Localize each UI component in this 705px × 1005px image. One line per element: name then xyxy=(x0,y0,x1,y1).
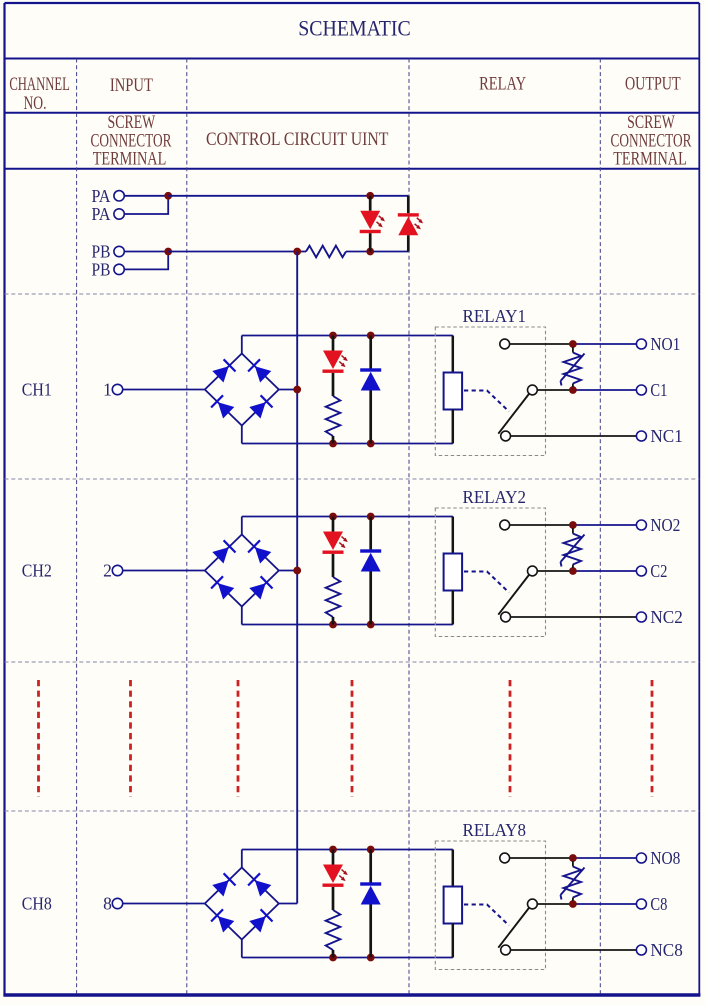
wire NO contact to node CH8 xyxy=(510,857,573,859)
svg-text:CONNECTOR: CONNECTOR xyxy=(611,132,692,152)
continuation dashed line 4 xyxy=(351,680,354,797)
bridge diode B2c xyxy=(211,576,234,599)
node snubber top CH8 xyxy=(569,854,577,862)
resistor R0 (input series) xyxy=(306,246,346,258)
continuation dashed line 3 xyxy=(237,680,240,797)
wire COM contact to node CH1 xyxy=(537,389,573,391)
node LED top CH2 xyxy=(329,513,337,521)
output terminal C8 xyxy=(636,894,667,914)
output terminal NC8 xyxy=(636,940,682,960)
relay actuator dashed link K1 xyxy=(464,391,509,412)
continuation dashed line 1 xyxy=(37,680,40,797)
svg-text:2: 2 xyxy=(103,561,112,581)
wire PA1 to junction xyxy=(124,195,168,197)
output terminal NC2 xyxy=(636,607,682,627)
relay coil K8 xyxy=(444,850,463,958)
relay RELAY1 box xyxy=(435,327,545,456)
relay coil K2 xyxy=(444,517,463,625)
wire bridge bottom stub CH1 xyxy=(241,426,243,444)
wire common bus (vertical) xyxy=(296,252,298,904)
relay actuator dashed link K2 xyxy=(464,572,509,593)
relay coil K1 xyxy=(444,336,463,444)
svg-text:CH2: CH2 xyxy=(22,561,52,581)
svg-text:CONTROL CIRCUIT UINT: CONTROL CIRCUIT UINT xyxy=(206,130,389,150)
wire bridge top stub CH1 xyxy=(241,336,243,354)
output terminal NO8 xyxy=(636,848,680,868)
relay contact NO CH8 xyxy=(500,853,510,863)
bridge diode B8d xyxy=(249,909,272,932)
node snubber bottom CH8 xyxy=(569,900,577,908)
relay armature CH2 xyxy=(498,575,529,615)
svg-text:NO2: NO2 xyxy=(650,515,680,535)
wire bridge to bus CH1 xyxy=(279,389,297,391)
continuation dashed line 6 xyxy=(651,680,654,797)
bridge diode B2b xyxy=(248,540,271,563)
wire resistor to rail CH2 xyxy=(332,617,335,625)
snubber RV1 (zigzag suppressor) xyxy=(561,347,585,387)
wire top rail CH8 xyxy=(242,849,453,851)
bridge diode B1c xyxy=(211,395,234,418)
wire node to C2 terminal xyxy=(573,570,637,572)
svg-text:PB: PB xyxy=(92,259,111,279)
flyback diode D1 (blue) xyxy=(360,336,381,444)
wire node to C1 terminal xyxy=(573,389,637,391)
wire PB rail to resistor xyxy=(168,251,306,253)
bridge diode B8b xyxy=(248,873,271,896)
relay actuator dashed link K8 xyxy=(464,905,509,926)
relay contact COM CH1 xyxy=(528,385,538,395)
output terminal NC1 xyxy=(636,426,682,446)
wire COM contact to node CH8 xyxy=(537,903,573,905)
terminal PA (upper) xyxy=(92,186,125,206)
wire NC contact to NC2 terminal xyxy=(511,616,637,618)
wire resistor to rail CH8 xyxy=(332,950,335,958)
node LED bottom CH2 xyxy=(329,621,337,629)
relay contact COM CH2 xyxy=(528,566,538,576)
resistor R1 xyxy=(326,396,341,436)
node snubber bottom CH1 xyxy=(569,386,577,394)
LED D8 (red indicator) xyxy=(323,850,348,911)
node snubber top CH1 xyxy=(569,340,577,348)
svg-text:SCHEMATIC: SCHEMATIC xyxy=(298,16,411,41)
svg-text:RELAY1: RELAY1 xyxy=(463,306,527,326)
bridge diode B1d xyxy=(249,395,272,418)
svg-text:PA: PA xyxy=(92,186,111,206)
input terminal 8 xyxy=(103,894,123,914)
wire node to NO2 terminal xyxy=(573,524,637,526)
node LED top CH8 xyxy=(329,846,337,854)
node bus junction CH1 xyxy=(293,386,301,394)
node diode bottom CH1 xyxy=(367,440,375,448)
wire node to C8 terminal xyxy=(573,903,637,905)
svg-text:SCREW: SCREW xyxy=(108,113,156,133)
resistor R8 xyxy=(326,910,341,950)
terminal PB (upper) xyxy=(92,242,125,262)
svg-text:RELAY2: RELAY2 xyxy=(463,487,527,507)
node LED bottom CH8 xyxy=(329,954,337,962)
bridge diode B2d xyxy=(249,576,272,599)
continuation dashed line 2 xyxy=(129,680,132,797)
wire resistor to rail CH1 xyxy=(332,436,335,444)
wire bridge top stub CH8 xyxy=(241,850,243,868)
node bus junction CH2 xyxy=(293,567,301,575)
continuation dashed line 5 xyxy=(509,680,512,797)
wire PA rail to LED pair xyxy=(168,195,408,197)
wire COM contact to node CH2 xyxy=(537,570,573,572)
terminal PB (lower) xyxy=(92,259,125,279)
svg-text:CH1: CH1 xyxy=(22,380,52,400)
node diode top CH1 xyxy=(367,332,375,340)
relay contact NC CH8 xyxy=(501,945,511,955)
wire bottom rail CH8 xyxy=(242,957,453,959)
wire bridge bottom stub CH8 xyxy=(241,940,243,958)
wire resistor to LED D01 xyxy=(346,251,408,253)
wire input 1 to bridge xyxy=(123,389,205,391)
flyback diode D8 (blue) xyxy=(360,850,381,958)
wire top rail CH1 xyxy=(242,335,453,337)
LED D02 (red, up) xyxy=(398,196,423,252)
svg-text:NO.: NO. xyxy=(24,94,47,114)
output terminal NO2 xyxy=(636,515,680,535)
node PB junction xyxy=(164,248,172,256)
node D01 anode xyxy=(366,192,374,200)
wire node to NO1 terminal xyxy=(573,343,637,345)
svg-text:1: 1 xyxy=(103,380,112,400)
node diode top CH8 xyxy=(367,846,375,854)
relay armature CH1 xyxy=(498,394,529,434)
input terminal 2 xyxy=(103,561,123,581)
bridge rectifier B1 (diamond) xyxy=(205,354,279,426)
node diode top CH2 xyxy=(367,513,375,521)
svg-text:RELAY8: RELAY8 xyxy=(463,820,527,840)
bridge diode B1b xyxy=(248,359,271,382)
wire input 2 to bridge xyxy=(123,570,205,572)
svg-text:NO1: NO1 xyxy=(650,334,680,354)
svg-text:C8: C8 xyxy=(650,894,667,914)
bridge diode B8a xyxy=(212,873,235,896)
wire input 8 to bridge xyxy=(123,903,205,905)
resistor R2 xyxy=(326,577,341,617)
svg-text:CHANNEL: CHANNEL xyxy=(9,75,70,95)
svg-text:C1: C1 xyxy=(650,380,667,400)
relay armature CH8 xyxy=(498,908,529,948)
node diode bottom CH2 xyxy=(367,621,375,629)
bridge diode B8c xyxy=(211,909,234,932)
snubber RV2 (zigzag suppressor) xyxy=(561,528,585,568)
relay contact NO CH1 xyxy=(500,339,510,349)
bridge rectifier B8 (diamond) xyxy=(205,868,279,940)
svg-text:NC8: NC8 xyxy=(650,940,682,960)
wire top rail CH2 xyxy=(242,516,453,518)
flyback diode D2 (blue) xyxy=(360,517,381,625)
wire NC contact to NC8 terminal xyxy=(511,949,637,951)
node D01 cathode xyxy=(366,248,374,256)
node LED bottom CH1 xyxy=(329,440,337,448)
LED D01 (red, down) xyxy=(360,196,385,252)
svg-text:PA: PA xyxy=(92,204,111,224)
node LED top CH1 xyxy=(329,332,337,340)
output terminal C2 xyxy=(636,561,667,581)
relay contact COM CH8 xyxy=(528,899,538,909)
bridge diode B2a xyxy=(212,540,235,563)
relay RELAY2 box xyxy=(435,508,545,637)
relay contact NC CH1 xyxy=(501,431,511,441)
svg-text:8: 8 xyxy=(103,894,112,914)
svg-text:TERMINAL: TERMINAL xyxy=(93,150,167,170)
wire NC contact to NC1 terminal xyxy=(511,435,637,437)
svg-text:SCREW: SCREW xyxy=(627,113,675,133)
node diode bottom CH8 xyxy=(367,954,375,962)
relay contact NC CH2 xyxy=(501,612,511,622)
relay contact NO CH2 xyxy=(500,520,510,530)
svg-text:TERMINAL: TERMINAL xyxy=(613,150,687,170)
svg-text:RELAY: RELAY xyxy=(479,75,526,95)
wire PA2 up to junction xyxy=(124,196,168,214)
svg-text:C2: C2 xyxy=(650,561,667,581)
terminal PA (lower) xyxy=(92,204,125,224)
svg-text:NC1: NC1 xyxy=(650,426,682,446)
wire bridge bottom stub CH2 xyxy=(241,607,243,625)
output terminal NO1 xyxy=(636,334,680,354)
LED D2 (red indicator) xyxy=(323,517,348,578)
bridge rectifier B2 (diamond) xyxy=(205,535,279,607)
LED D1 (red indicator) xyxy=(323,336,348,397)
snubber RV8 (zigzag suppressor) xyxy=(561,861,585,901)
wire bottom rail CH2 xyxy=(242,624,453,626)
wire bridge to bus CH2 xyxy=(279,570,297,572)
svg-text:NC2: NC2 xyxy=(650,607,682,627)
node snubber bottom CH2 xyxy=(569,567,577,575)
svg-text:OUTPUT: OUTPUT xyxy=(625,75,681,95)
wire PB1 to junction xyxy=(124,251,168,253)
wire bridge to bus CH8 xyxy=(279,903,297,905)
wire node to NO8 terminal xyxy=(573,857,637,859)
svg-text:INPUT: INPUT xyxy=(110,76,153,96)
node snubber top CH2 xyxy=(569,521,577,529)
bridge diode B1a xyxy=(212,359,235,382)
node PA junction xyxy=(164,192,172,200)
wire bridge top stub CH2 xyxy=(241,517,243,535)
svg-text:CONNECTOR: CONNECTOR xyxy=(91,132,172,152)
input terminal 1 xyxy=(103,380,123,400)
wire NO contact to node CH2 xyxy=(510,524,573,526)
svg-text:NO8: NO8 xyxy=(650,848,680,868)
relay RELAY8 box xyxy=(435,841,545,970)
node PB / bus junction xyxy=(293,248,301,256)
svg-text:CH8: CH8 xyxy=(22,894,52,914)
wire NO contact to node CH1 xyxy=(510,343,573,345)
wire PB2 up to junction xyxy=(124,252,168,270)
wire bottom rail CH1 xyxy=(242,443,453,445)
output terminal C1 xyxy=(636,380,667,400)
